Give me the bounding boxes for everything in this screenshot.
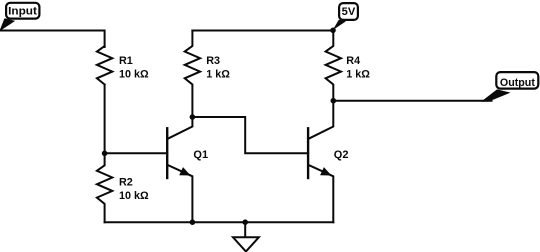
node C junction 5V/R4 [330,28,336,34]
wire interstage Q1 collector to Q2 base [192,117,308,153]
ground [233,222,259,251]
wire top rail to 5V [192,30,333,32]
svg-text:Q1: Q1 [193,149,208,161]
resistor R1 [97,46,112,85]
net label Output [481,72,538,102]
wire output net [333,100,491,102]
svg-text:R3: R3 [206,55,220,67]
svg-text:10 kΩ: 10 kΩ [119,190,149,202]
resistor R4 [326,31,341,101]
node D junction R4/Q2 collector/output [331,98,337,104]
transistor Q1 [167,117,192,222]
svg-text:Output: Output [500,77,535,89]
node A junction R1/R2/Q1 base [102,151,108,157]
resistor R3 [185,31,200,118]
svg-text:1 kΩ: 1 kΩ [206,68,230,80]
svg-text:R4: R4 [346,55,360,67]
wire input net [0,31,105,48]
svg-text:1 kΩ: 1 kΩ [346,68,370,80]
node junction ground on rail [242,219,248,225]
svg-text:Input: Input [8,6,37,18]
wire bottom rail [105,221,334,223]
svg-text:10 kΩ: 10 kΩ [119,68,149,80]
transistor Q2 [308,101,333,223]
svg-text:Q2: Q2 [334,149,349,161]
power label 5V [333,3,358,30]
net label Input [0,3,39,31]
resistor R2 [97,153,112,222]
wire base of Q1 [105,152,168,154]
wire R1 bottom to node A [104,85,106,154]
svg-text:R2: R2 [119,176,133,188]
svg-text:R1: R1 [119,55,133,67]
svg-text:5V: 5V [342,6,356,18]
node B junction R3/Q1 collector [190,114,196,120]
node junction Q1 emitter on rail [190,219,196,225]
